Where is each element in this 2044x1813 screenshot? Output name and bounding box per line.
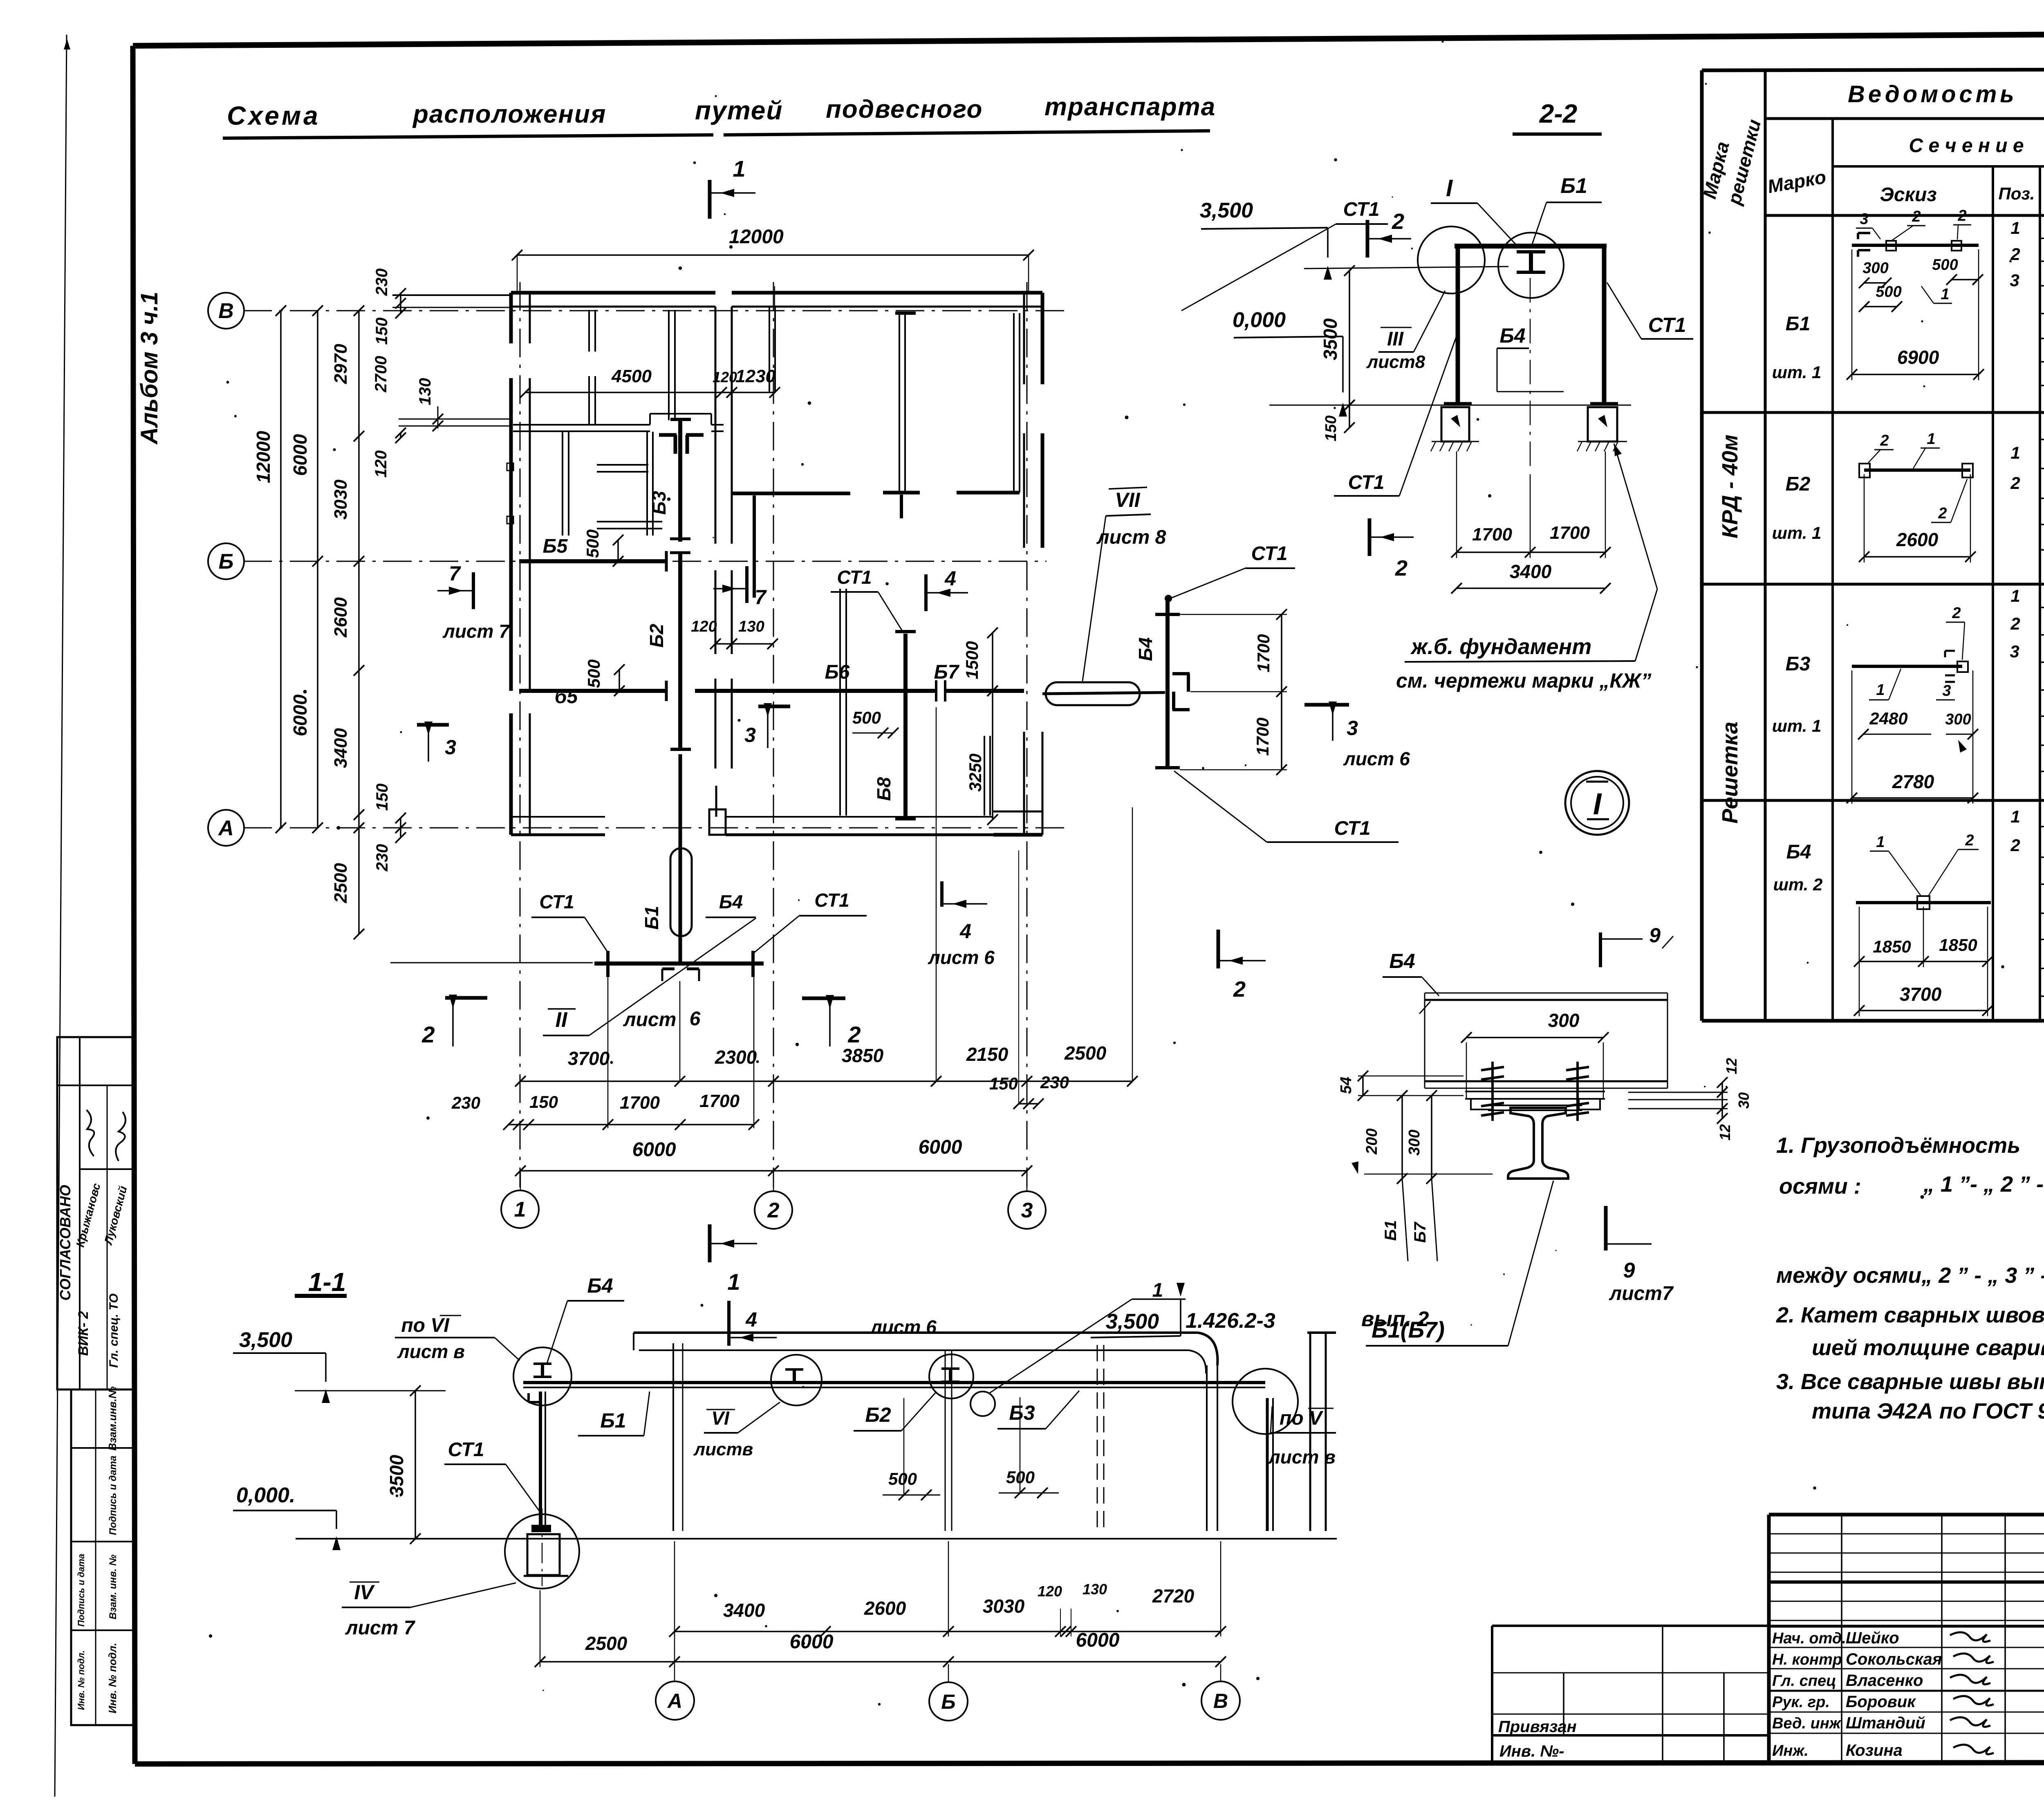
svg-text:3700: 3700 <box>1900 984 1942 1005</box>
table ведомость элементов outer <box>1702 69 2044 70</box>
1-1 roof right bend <box>1198 1333 1217 1365</box>
svg-text:3400: 3400 <box>1510 561 1552 582</box>
svg-text:В: В <box>1213 1690 1228 1712</box>
svg-text:1.426.2-3: 1.426.2-3 <box>1186 1309 1275 1333</box>
svg-text:230: 230 <box>1040 1073 1069 1092</box>
svg-text:3850: 3850 <box>842 1045 884 1066</box>
svg-text:Власенко: Власенко <box>1846 1672 1923 1690</box>
beam Б5 on axis Б <box>519 559 666 563</box>
svg-text:I: I <box>1446 175 1453 202</box>
svg-text:Инв. № подл.: Инв. № подл. <box>76 1650 86 1710</box>
svg-text:2500: 2500 <box>331 863 351 903</box>
1-1 corner circle right <box>1233 1369 1298 1434</box>
svg-text:лист 6: лист 6 <box>1343 748 1410 769</box>
svg-text:500: 500 <box>583 529 602 558</box>
1-1 beam corner turn down <box>1266 1398 1269 1531</box>
svg-text:3030: 3030 <box>331 480 351 520</box>
svg-text:4: 4 <box>959 920 971 943</box>
1-1 dim 500 a <box>903 1398 905 1496</box>
svg-text:150: 150 <box>989 1074 1018 1093</box>
beam Б4 vertical right <box>1165 598 1170 768</box>
svg-text:СТ1: СТ1 <box>1343 199 1380 220</box>
svg-text:между осями„ 2 ” - „ 3 ” - 2,: между осями„ 2 ” - „ 3 ” - 2,0 тс (для К… <box>1776 1263 2044 1288</box>
section mark 1 bottom <box>708 1224 712 1262</box>
svg-text:Взам. инв. №: Взам. инв. № <box>108 1554 119 1619</box>
gallery walls west of building <box>392 294 511 296</box>
svg-text:СТ1: СТ1 <box>814 890 849 911</box>
detail right dims 12 30 12 <box>1721 1082 1723 1092</box>
svg-text:2: 2 <box>847 1022 861 1047</box>
svg-text:КРД - 40м: КРД - 40м <box>1718 435 1742 538</box>
svg-text:вып. 2: вып. 2 <box>1361 1307 1429 1331</box>
1-1 axis circle А <box>674 1634 675 1681</box>
dim 500 upper rot <box>617 540 619 561</box>
svg-text:шт. 1: шт. 1 <box>1772 523 1822 542</box>
svg-text:Альбом 3 ч.1: Альбом 3 ч.1 <box>136 291 163 445</box>
svg-text:1700: 1700 <box>1550 523 1590 543</box>
sketch Б3 <box>1852 665 1962 668</box>
svg-text:300: 300 <box>1945 711 1971 728</box>
svg-text:4: 4 <box>944 567 956 590</box>
svg-text:2780: 2780 <box>1892 771 1934 792</box>
svg-text:3: 3 <box>1942 682 1951 699</box>
2-2 section mark 2 top <box>1366 220 1369 258</box>
svg-text:VI: VI <box>711 1407 730 1429</box>
detail suspension plates <box>1465 1091 1605 1092</box>
interior h-wall y1285 <box>597 521 662 522</box>
svg-text:130: 130 <box>1083 1581 1107 1598</box>
svg-text:лист 7: лист 7 <box>345 1617 416 1639</box>
svg-text:Б7: Б7 <box>1411 1221 1429 1243</box>
partition x2488 <box>1013 313 1015 493</box>
svg-text:500: 500 <box>888 1469 917 1488</box>
svg-text:3: 3 <box>1347 717 1358 740</box>
svg-text:3: 3 <box>2010 271 2019 290</box>
svg-text:ж.б. фундамент: ж.б. фундамент <box>1410 634 1591 659</box>
svg-text:Б: Б <box>219 550 234 574</box>
svg-text:1: 1 <box>1876 681 1885 699</box>
svg-text:1850: 1850 <box>1939 935 1977 955</box>
svg-text:В: В <box>218 299 234 323</box>
interior h-wall y1047 <box>513 424 650 426</box>
svg-text:1: 1 <box>1927 430 1935 448</box>
svg-text:Б4: Б4 <box>587 1274 613 1297</box>
detail left dims 54 200 300 <box>1362 1076 1364 1096</box>
2-2 left column <box>1456 246 1460 404</box>
detail bolts <box>1491 1062 1494 1121</box>
partition x2205 <box>899 313 900 493</box>
svg-text:3: 3 <box>445 736 456 759</box>
svg-text:3250: 3250 <box>966 753 985 791</box>
bottom chain 6000 6000 <box>520 1170 1027 1172</box>
svg-text:СТ1: СТ1 <box>1251 543 1288 565</box>
svg-text:2720: 2720 <box>1152 1585 1195 1607</box>
svg-text:лист 8: лист 8 <box>1096 527 1166 548</box>
svg-text:Б1: Б1 <box>641 906 662 930</box>
svg-text:Б2: Б2 <box>646 624 667 648</box>
left wall junction nubs <box>507 463 513 471</box>
svg-text:2: 2 <box>1880 432 1889 449</box>
svg-text:Подпись и дата: Подпись и дата <box>108 1456 119 1535</box>
axis line 3 <box>1026 282 1028 1188</box>
svg-text:Взам.инв.№: Взам.инв.№ <box>106 1386 119 1450</box>
1-1 circle hanger 2 <box>929 1354 973 1398</box>
svg-text:I: I <box>1593 787 1602 821</box>
title block ТП cell <box>1769 1580 2044 1584</box>
svg-text:II: II <box>556 1008 568 1032</box>
svg-text:2: 2 <box>1233 977 1246 1002</box>
svg-text:1: 1 <box>1152 1280 1163 1301</box>
привязан box <box>1492 1625 1769 1627</box>
svg-text:Боровик: Боровик <box>1846 1693 1916 1711</box>
svg-text:Штандий: Штандий <box>1846 1714 1925 1732</box>
2-2 dim 3400 <box>1457 587 1605 589</box>
1-1 circle hanger 1 <box>771 1355 822 1405</box>
svg-text:1: 1 <box>2010 807 2020 826</box>
svg-text:лист8: лист8 <box>1366 352 1425 372</box>
svg-text:12000: 12000 <box>729 226 784 248</box>
svg-text:Б2: Б2 <box>1786 473 1811 495</box>
svg-text:6000: 6000 <box>1076 1629 1120 1651</box>
1-1 connection circle left <box>513 1347 572 1405</box>
svg-text:2150: 2150 <box>966 1044 1009 1065</box>
svg-text:расположения: расположения <box>412 100 606 128</box>
svg-text:150: 150 <box>373 318 391 345</box>
svg-text:Поз.: Поз. <box>1999 184 2035 203</box>
svg-text:6000: 6000 <box>632 1139 676 1161</box>
svg-text:120: 120 <box>1038 1583 1062 1600</box>
svg-text:ВИК- 2: ВИК- 2 <box>76 1311 91 1356</box>
svg-text:Б6: Б6 <box>825 661 850 683</box>
axis line А <box>243 827 1071 829</box>
svg-text:типа Э42А по ГОСТ 9467: типа Э42А по ГОСТ 9467- 75 <box>1812 1399 2044 1423</box>
beam Б6/Б7 y1690 <box>695 689 936 693</box>
1-1 column foundation <box>531 1525 551 1532</box>
exterior wall bottom right corner <box>993 811 1042 813</box>
1-1 wall on axis А <box>672 1343 674 1531</box>
svg-text:30: 30 <box>1735 1092 1752 1109</box>
svg-text:1. Грузоподъёмность: 1. Грузоподъёмность <box>1776 1133 2020 1158</box>
svg-text:Вед. инж: Вед. инж <box>1772 1715 1842 1732</box>
bottom right small dims 150 230 <box>1019 1103 1038 1105</box>
svg-text:1-1: 1-1 <box>308 1267 346 1297</box>
svg-text:2500: 2500 <box>1064 1042 1107 1064</box>
svg-text:1700: 1700 <box>1472 524 1512 545</box>
section mark 4 top <box>924 574 928 611</box>
svg-text:2: 2 <box>1965 832 1974 849</box>
svg-text:Б2: Б2 <box>865 1403 891 1426</box>
svg-text:Б5: Б5 <box>543 536 568 557</box>
revision grid <box>1769 1533 2044 1535</box>
section mark 7 right <box>745 566 749 603</box>
svg-text:транспарта: транспарта <box>1044 93 1216 121</box>
svg-text:б5: б5 <box>555 686 578 708</box>
2-2 I-beam symbol <box>1517 250 1545 253</box>
svg-text:Б1: Б1 <box>1382 1220 1400 1241</box>
svg-text:Привязан: Привязан <box>1498 1718 1577 1736</box>
1-1 dim 500 b <box>1020 1397 1021 1494</box>
1-1 dashed partition 120/130 <box>1097 1345 1098 1531</box>
2-2 ground line <box>1269 405 1631 406</box>
svg-text:2: 2 <box>1952 605 1961 622</box>
svg-text:Б1: Б1 <box>600 1409 626 1432</box>
1-1 left column <box>539 1392 542 1531</box>
svg-text:2500: 2500 <box>585 1633 628 1654</box>
svg-text:6: 6 <box>690 1008 701 1030</box>
svg-text:6000: 6000 <box>289 694 311 736</box>
svg-text:Б4: Б4 <box>1786 841 1811 863</box>
svg-text:2: 2 <box>421 1022 435 1047</box>
beam Б5 lower <box>519 689 666 693</box>
axis line 1 <box>520 282 521 1188</box>
svg-text:по VI: по VI <box>401 1315 450 1336</box>
svg-text:2: 2 <box>2010 473 2020 493</box>
svg-text:54: 54 <box>1338 1077 1355 1094</box>
svg-text:12: 12 <box>1723 1058 1740 1074</box>
beam Б8 vertical <box>903 634 908 820</box>
svg-text:Шейко: Шейко <box>1846 1629 1899 1647</box>
axis circle А <box>208 810 244 846</box>
svg-text:1: 1 <box>1941 286 1949 303</box>
svg-text:Б1: Б1 <box>1786 313 1811 335</box>
svg-text:Инв. №-: Инв. №- <box>1499 1742 1564 1760</box>
dim 1700 1700 right of plan <box>1281 614 1282 770</box>
svg-text:3: 3 <box>1021 1199 1033 1222</box>
svg-text:300: 300 <box>1406 1129 1423 1155</box>
left dim chain 6000/6000 <box>317 311 318 828</box>
svg-text:230: 230 <box>373 269 391 296</box>
svg-text:лист в: лист в <box>397 1341 465 1362</box>
beam Б4 bottom horizontal <box>594 961 764 966</box>
2-2 dim 150 <box>1349 405 1350 428</box>
svg-text:2600: 2600 <box>331 597 351 638</box>
2-2 dims 1700 1700 <box>1456 451 1457 558</box>
partition top middle x1890 <box>769 307 770 392</box>
svg-text:Б4: Б4 <box>719 891 743 912</box>
svg-text:Б4: Б4 <box>1499 324 1525 347</box>
sketch Б2 <box>1864 468 1970 472</box>
svg-text:Козина: Козина <box>1846 1741 1903 1759</box>
svg-text:IV: IV <box>354 1581 375 1604</box>
svg-text:6000: 6000 <box>790 1631 834 1653</box>
svg-text:1500: 1500 <box>962 641 982 679</box>
svg-text:подвесного: подвесного <box>826 95 983 123</box>
svg-text:500: 500 <box>1006 1468 1035 1487</box>
svg-text:лист 6: лист 6 <box>870 1316 937 1338</box>
svg-text:листв: листв <box>693 1439 753 1459</box>
svg-text:2: 2 <box>2010 614 2020 633</box>
svg-text:500: 500 <box>584 659 603 688</box>
svg-text:2480: 2480 <box>1869 709 1907 728</box>
svg-text:по V: по V <box>1280 1407 1324 1429</box>
svg-text:150: 150 <box>373 784 391 811</box>
svg-text:2: 2 <box>2010 836 2020 855</box>
detail right plate lines <box>1628 1092 1728 1093</box>
svg-text:3: 3 <box>1860 211 1868 228</box>
svg-text:шт. 2: шт. 2 <box>1773 875 1823 894</box>
2-2 section mark 2 bottom <box>1368 518 1372 556</box>
svg-text:2600: 2600 <box>864 1598 906 1619</box>
svg-text:3500: 3500 <box>1320 318 1341 360</box>
svg-text:С е ч е н и е: С е ч е н и е <box>1909 135 2024 157</box>
1-1 hanger I symbol 1 <box>785 1368 803 1371</box>
svg-text:120: 120 <box>713 369 737 385</box>
partition V2 x1447 above h-wall <box>588 310 590 352</box>
svg-text:2: 2 <box>1395 556 1407 580</box>
svg-text:2: 2 <box>1392 209 1404 234</box>
svg-text:Эскиз: Эскиз <box>1880 184 1936 206</box>
left stamps upper box <box>57 1037 135 1389</box>
svg-text:VII: VII <box>1115 489 1140 511</box>
svg-text:6000: 6000 <box>289 434 311 476</box>
svg-text:3400: 3400 <box>723 1600 765 1621</box>
axis circle 2 <box>755 1191 792 1229</box>
2-2 foundation block left <box>1441 407 1469 441</box>
partition V4 x1590 <box>646 432 648 536</box>
svg-text:1700: 1700 <box>1253 717 1272 755</box>
svg-text:3: 3 <box>2010 642 2019 661</box>
svg-text:лист: лист <box>623 1009 677 1031</box>
svg-text:шт. 1: шт. 1 <box>1772 716 1822 735</box>
1-1 hanger I at column <box>533 1363 551 1365</box>
svg-text:осями :: осями : <box>1779 1174 1861 1199</box>
svg-text:1: 1 <box>2010 586 2020 605</box>
svg-text:3,500: 3,500 <box>239 1328 292 1352</box>
svg-text:1: 1 <box>2010 218 2020 238</box>
svg-text:СТ1: СТ1 <box>1348 472 1385 493</box>
svg-text:Рук. гр.: Рук. гр. <box>1772 1694 1830 1711</box>
svg-text:3: 3 <box>744 724 756 746</box>
axis circle 1 <box>501 1190 539 1228</box>
left page edge line <box>55 35 67 1797</box>
detail Б4 beam side view <box>1425 993 1667 994</box>
svg-text:2-2: 2-2 <box>1539 99 1578 128</box>
drawing frame border <box>133 31 2044 46</box>
section mark 3 plan lower <box>758 705 790 708</box>
svg-text:300: 300 <box>1548 1010 1580 1031</box>
svg-text:12: 12 <box>1717 1124 1733 1141</box>
svg-text:200: 200 <box>1363 1128 1381 1154</box>
table section thick lines <box>1702 411 2044 414</box>
2-2 dim 3500 <box>1349 271 1350 405</box>
signature rows <box>1769 1647 2044 1648</box>
svg-text:СТ1: СТ1 <box>1334 818 1371 839</box>
svg-text:Б3: Б3 <box>1786 653 1811 675</box>
detail circle I <box>1565 771 1629 835</box>
svg-text:3500: 3500 <box>386 1454 407 1497</box>
axis circle Б <box>208 543 244 579</box>
svg-text:2600: 2600 <box>1896 529 1939 550</box>
svg-text:2: 2 <box>2010 244 2020 264</box>
section mark 7 left <box>472 572 475 609</box>
svg-text:СТ1: СТ1 <box>448 1439 484 1461</box>
svg-text:1: 1 <box>2010 443 2020 462</box>
svg-text:150: 150 <box>529 1092 558 1112</box>
svg-text:150: 150 <box>1322 415 1340 441</box>
svg-text:Гл. спец: Гл. спец <box>1772 1672 1836 1690</box>
svg-text:Ведомость: Ведомость <box>1848 81 2017 108</box>
partition P5 x2415 <box>984 736 985 816</box>
axis line Б <box>243 561 519 562</box>
2-2 foundation hatch <box>1432 441 1479 442</box>
exterior wall right <box>1023 293 1025 384</box>
2-2 foundation block right <box>1588 407 1617 441</box>
svg-text:А: А <box>667 1690 682 1712</box>
svg-text:Б3: Б3 <box>648 491 670 515</box>
interior h-wall y1145 <box>597 464 648 466</box>
dim 500 lower rot <box>619 670 620 691</box>
svg-text:СТ1: СТ1 <box>1648 314 1686 336</box>
section mark 2 right plan <box>802 997 845 1000</box>
svg-text:Н. контр: Н. контр <box>1772 1651 1842 1668</box>
svg-text:1700: 1700 <box>699 1091 740 1111</box>
svg-text:2: 2 <box>1912 208 1921 225</box>
partition x1643 <box>668 310 670 420</box>
svg-text:Б3: Б3 <box>1009 1401 1035 1424</box>
table column lines <box>1764 70 1767 1021</box>
table sub-row lines <box>2040 238 2044 239</box>
1-1 section mark 4 <box>727 1301 731 1346</box>
section mark 1 top <box>708 180 712 219</box>
svg-text:4: 4 <box>745 1308 757 1331</box>
bottom chain 230 150 1700 1700 <box>509 1124 754 1125</box>
1-1 outer right wall <box>1309 1333 1311 1531</box>
sketch Б1 <box>1852 244 1979 247</box>
2-2 right column <box>1602 246 1607 404</box>
svg-text:6000: 6000 <box>919 1136 962 1158</box>
svg-text:Инв. № подл.: Инв. № подл. <box>106 1643 119 1714</box>
1-1 bottom dims row2 <box>540 1661 1221 1663</box>
2-2 portal top beam <box>1455 244 1607 249</box>
svg-text:3. Все сварные швы выполн: 3. Все сварные швы выполняются электрода… <box>1776 1369 2044 1394</box>
section mark 2 left <box>445 996 487 1000</box>
svg-text:130: 130 <box>738 618 764 635</box>
svg-text:0,000: 0,000 <box>1233 308 1286 332</box>
stamp signatures <box>80 1109 100 1157</box>
section mark 4 bottom plan <box>940 881 944 907</box>
svg-text:СТ1: СТ1 <box>837 567 872 588</box>
1-1 axis circle В <box>1220 1664 1221 1681</box>
svg-text:2: 2 <box>1938 505 1947 522</box>
svg-text:0,000.: 0,000. <box>236 1484 296 1507</box>
2-2 base plates <box>1444 402 1472 406</box>
detail section mark 9 <box>1604 1206 1608 1250</box>
axis line В <box>243 310 1071 312</box>
svg-text:Подпись и дата: Подпись и дата <box>76 1554 86 1627</box>
section mark 2 far right <box>1217 930 1220 968</box>
2-2 centerline <box>1530 278 1531 469</box>
svg-text:СОГЛАСОВАНО: СОГЛАСОВАНО <box>57 1185 74 1300</box>
vertical beam Б3/Б2/Б1 <box>678 419 682 542</box>
svg-text:лист 7: лист 7 <box>442 621 510 642</box>
bottom chain 3700 2300 3850 2150 2500 <box>520 1080 1132 1082</box>
partition P4 x2062 <box>839 589 841 816</box>
left stamps lower box <box>71 1389 135 1725</box>
svg-text:9: 9 <box>1649 924 1661 947</box>
svg-text:230: 230 <box>451 1093 480 1112</box>
interior partition P1 (x~1770) <box>715 307 717 544</box>
svg-text:7: 7 <box>755 586 767 609</box>
svg-text:СТ1: СТ1 <box>539 891 574 912</box>
svg-text:лист 6: лист 6 <box>928 947 995 968</box>
1-1 bottom dims row1 <box>675 1631 1221 1632</box>
svg-text:230: 230 <box>373 844 391 872</box>
svg-text:1230: 1230 <box>735 366 775 386</box>
svg-text:„ 1 ”- „ 2 ” -: „ 1 ”- „ 2 ” - <box>1923 1172 2044 1197</box>
2-2 section mark 3 right <box>1304 703 1349 707</box>
svg-text:120: 120 <box>691 618 717 635</box>
section mark 9 plan <box>1599 932 1602 967</box>
